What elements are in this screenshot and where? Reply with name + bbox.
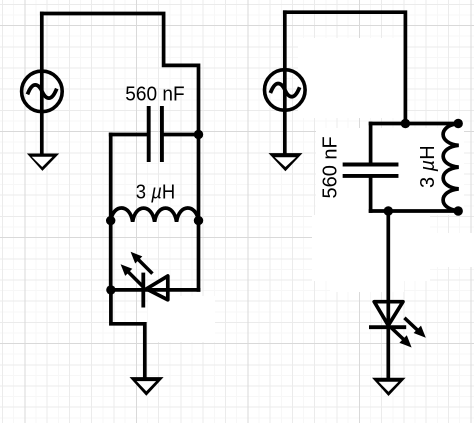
junction dot LED D1	[106, 285, 115, 294]
wire right rail	[197, 135, 201, 290]
wire cap C1 right lead	[164, 133, 199, 137]
LED D1 arrow 1 shaft	[128, 272, 142, 286]
erased patch right circuit top	[298, 38, 404, 118]
LED D2 arrow 1 head	[414, 326, 426, 338]
wire cap C1 left lead	[111, 133, 147, 137]
wire LED D2 column	[386, 211, 390, 377]
svg-text:3 µH: 3 µH	[136, 181, 175, 204]
LED D2 triangle	[374, 302, 403, 326]
svg-text:3 µH: 3 µH	[417, 145, 439, 188]
AC source V1	[22, 71, 63, 112]
ground G3	[269, 153, 303, 171]
erased patch left circuit	[148, 296, 215, 342]
wire cap C2 bottom lead	[369, 178, 373, 211]
LED D1 arrow 2 head	[131, 252, 143, 264]
LED D1 arrow 2 shaft	[138, 259, 151, 272]
wire top rail left circuit	[42, 14, 199, 135]
junction dot L1 right	[194, 216, 203, 225]
LED D1 triangle	[146, 276, 168, 300]
erased patch right circuit middle	[316, 128, 464, 215]
capacitor C1 plates	[149, 108, 162, 160]
junction dot cap C1 right	[194, 130, 203, 139]
wire LED D1 row	[111, 288, 199, 292]
junction dot L1 left	[106, 216, 115, 225]
junction dot L2 top	[454, 119, 463, 128]
wire tank bottom rail	[371, 209, 459, 213]
AC source V2	[265, 70, 306, 111]
V2 sine wave	[271, 84, 299, 97]
wire V2 vertical through source	[283, 12, 287, 153]
wire tank top rail	[371, 122, 459, 126]
ground G1	[27, 154, 59, 171]
wire top rail right circuit	[285, 12, 406, 123]
wire lower left jog	[111, 290, 145, 377]
LED D1 cathode bar	[141, 275, 145, 306]
LED D2 cathode bar	[371, 325, 404, 329]
LED D1 arrow 1 head	[121, 264, 133, 276]
junction dot top rail feed	[401, 119, 410, 128]
wire cap C2 top lead	[369, 124, 373, 163]
V1 sine wave	[28, 85, 56, 98]
inductor L2 coil	[443, 124, 459, 211]
ground G4	[372, 378, 406, 396]
wire left rail	[109, 135, 113, 290]
LED D2 arrow 1 shaft	[406, 319, 420, 332]
ground G2	[130, 377, 164, 396]
wire V1 vertical through source	[40, 14, 44, 154]
inductor L1 coil	[111, 208, 199, 222]
LED D2 arrow 2 head	[399, 335, 411, 347]
erased patch right circuit lower	[312, 215, 430, 281]
junction dot L2 bottom	[454, 206, 463, 215]
svg-text:560 nF: 560 nF	[319, 136, 341, 198]
LED D2 arrow 2 shaft	[392, 329, 405, 342]
capacitor C2 plates	[345, 165, 397, 176]
svg-text:560 nF: 560 nF	[125, 83, 184, 106]
erased patch right circuit lower right	[400, 233, 474, 267]
erased patch around LED D2 top	[330, 278, 404, 292]
junction dot LED D2 top	[384, 206, 393, 215]
